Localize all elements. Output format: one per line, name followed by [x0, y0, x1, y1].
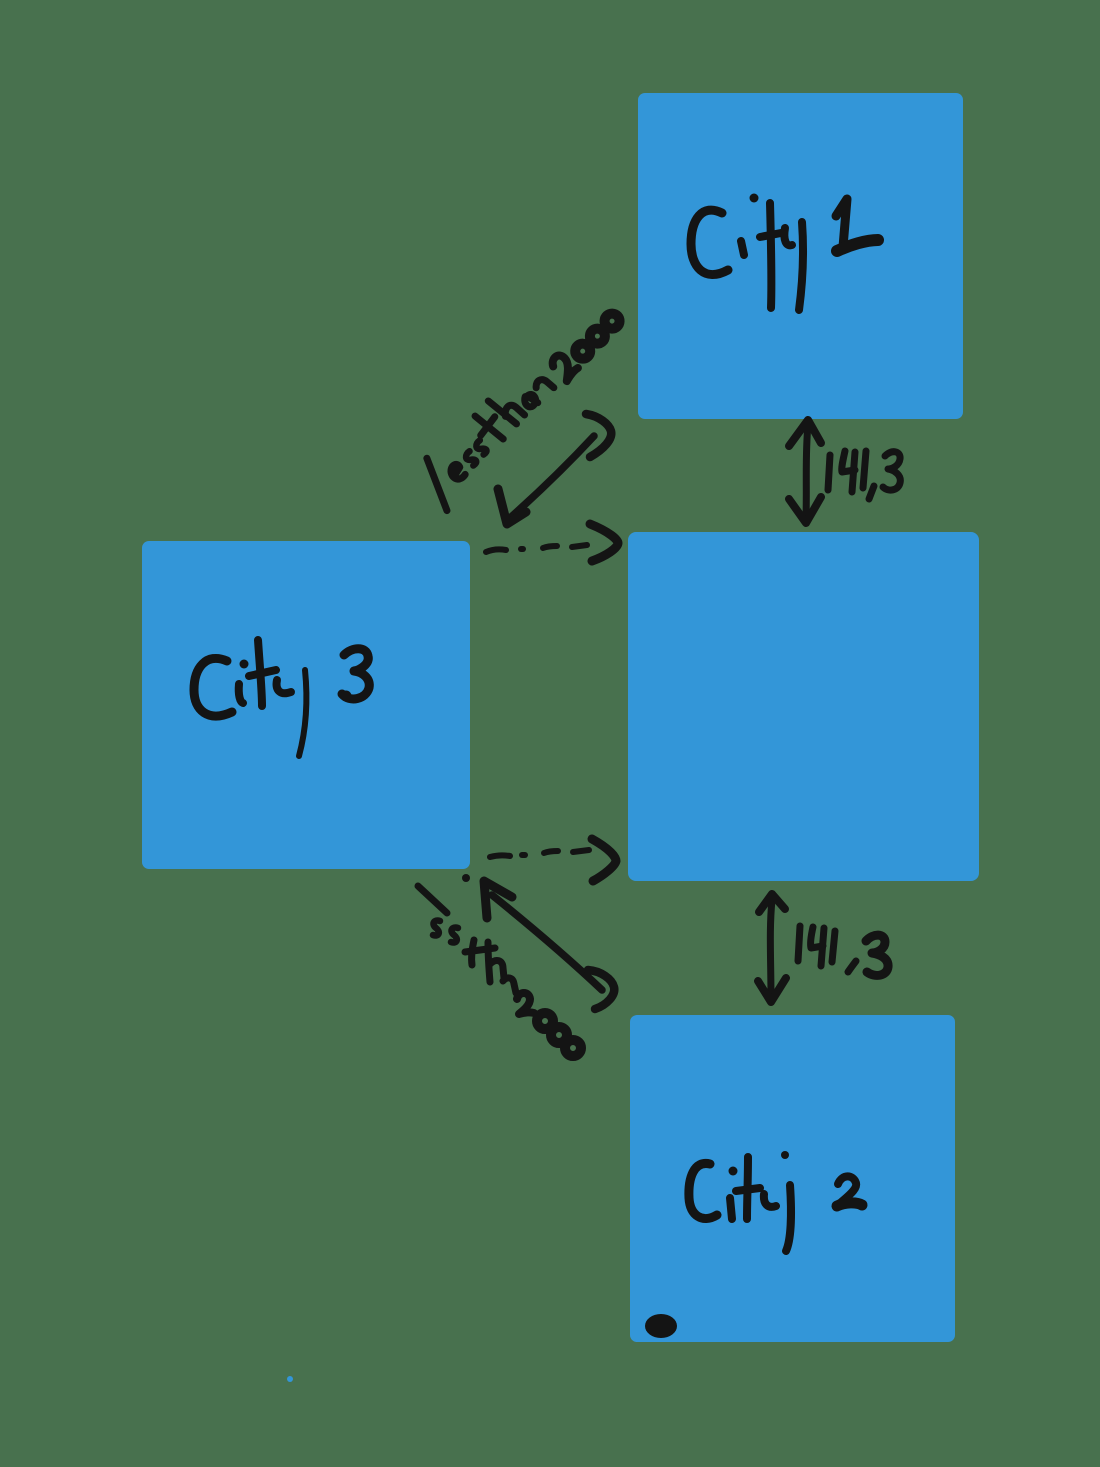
edge arrow: vertical double arrow middle-City2 — [758, 894, 786, 1002]
node City 3 box — [142, 541, 470, 869]
edge dashed arrow City3-middle lower — [462, 839, 616, 882]
label less thn 2000 lower (staircase) — [418, 886, 581, 1056]
node middle box (unlabeled) — [628, 532, 979, 881]
node City 1 box — [638, 93, 963, 419]
black dot inside City 2 — [645, 1314, 677, 1338]
label City 2 handwritten text — [689, 1151, 862, 1251]
label less than 2000 upper (rotated) — [411, 297, 635, 511]
edge dashed arrow City3-middle upper — [486, 524, 618, 561]
label 141,3 upper — [828, 451, 900, 499]
edge arrow: vertical double arrow City1-middle — [789, 420, 821, 523]
label City 1 handwritten text — [691, 194, 878, 311]
node City 2 box — [630, 1015, 955, 1342]
label 141,3 lower — [798, 926, 888, 975]
tiny blue dot bottom left — [287, 1376, 293, 1382]
label City 3 handwritten text — [194, 640, 369, 756]
edge arrow: diagonal double arrow City3-City2 — [484, 881, 614, 1009]
edge arrow: diagonal double arrow City3-City1 — [498, 414, 611, 524]
